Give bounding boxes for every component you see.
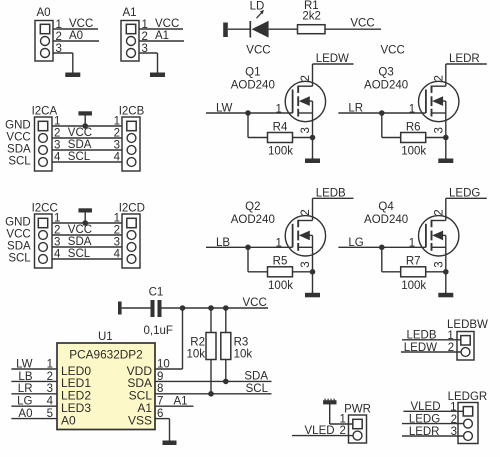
svg-text:1: 1 [409,238,415,250]
svg-text:VCC: VCC [246,45,270,57]
svg-text:VLED: VLED [305,425,335,437]
svg-text:LEDB: LEDB [406,330,436,342]
svg-text:2: 2 [114,128,120,140]
svg-text:3: 3 [114,237,120,249]
svg-text:SDA: SDA [7,240,31,252]
svg-text:SCL: SCL [246,383,269,395]
svg-text:LEDW: LEDW [404,342,437,354]
svg-text:3: 3 [54,237,60,249]
svg-text:LD: LD [250,0,265,12]
svg-text:LG: LG [17,396,32,408]
svg-text:VCC: VCC [69,18,93,30]
svg-text:R6: R6 [406,121,421,133]
svg-text:GND: GND [5,216,31,228]
svg-text:3: 3 [300,127,312,133]
svg-text:VCC: VCC [155,18,179,30]
svg-text:AOD240: AOD240 [231,214,275,226]
svg-text:U1: U1 [98,331,113,343]
svg-text:VLED: VLED [410,401,440,413]
svg-text:SDA: SDA [68,139,92,151]
svg-text:1: 1 [275,238,281,250]
svg-text:1: 1 [275,103,281,115]
svg-text:3: 3 [142,43,148,55]
svg-text:SDA: SDA [7,143,31,155]
svg-text:Q4: Q4 [378,201,394,213]
svg-text:VCC: VCC [243,297,267,309]
svg-text:2: 2 [56,31,62,43]
svg-text:1: 1 [142,19,148,31]
svg-text:SCL: SCL [8,155,31,167]
svg-text:LR: LR [348,103,363,115]
svg-text:2: 2 [300,209,312,215]
svg-text:SDA: SDA [244,370,268,382]
svg-text:LG: LG [348,237,363,249]
svg-text:I2CA: I2CA [32,105,58,117]
svg-text:R7: R7 [406,256,421,268]
svg-text:SCL: SCL [8,252,31,264]
svg-text:4: 4 [54,249,61,261]
svg-text:VCC: VCC [381,45,405,57]
svg-text:2: 2 [54,225,60,237]
svg-text:R4: R4 [273,121,288,133]
svg-text:4: 4 [47,396,54,408]
svg-text:1: 1 [47,358,53,370]
svg-text:R5: R5 [273,256,288,268]
svg-text:R2: R2 [190,336,205,348]
svg-text:LR: LR [18,383,33,395]
svg-text:VCC: VCC [6,228,30,240]
svg-text:2: 2 [448,342,454,354]
svg-text:LB: LB [216,237,230,249]
svg-text:3: 3 [434,127,446,133]
svg-text:2k2: 2k2 [302,11,321,23]
svg-text:LEDR: LEDR [449,53,480,65]
svg-text:A1: A1 [123,7,137,19]
svg-text:VSS: VSS [128,413,152,427]
svg-text:Q3: Q3 [378,67,393,79]
svg-text:10k: 10k [234,349,253,361]
svg-text:LEDR: LEDR [409,426,440,438]
svg-text:A0: A0 [37,7,51,19]
svg-text:PCA9632DP2: PCA9632DP2 [69,347,142,361]
svg-text:3: 3 [300,261,312,267]
svg-text:Q1: Q1 [245,67,260,79]
svg-text:2: 2 [434,75,446,81]
svg-text:3: 3 [47,383,53,395]
svg-text:A1: A1 [174,396,188,408]
svg-text:A0: A0 [69,30,83,42]
svg-text:2: 2 [434,209,446,215]
svg-text:100k: 100k [268,146,293,158]
svg-text:4: 4 [54,152,61,164]
svg-text:C1: C1 [149,287,164,299]
svg-text:VCC: VCC [68,224,92,236]
svg-text:I2CD: I2CD [119,202,145,214]
svg-text:2: 2 [54,128,60,140]
svg-text:LEDBW: LEDBW [447,319,488,331]
svg-text:3: 3 [56,43,62,55]
svg-text:2: 2 [451,414,457,426]
svg-text:LEDB: LEDB [316,188,346,200]
svg-text:4: 4 [114,249,121,261]
svg-text:VCC: VCC [68,127,92,139]
svg-text:AOD240: AOD240 [364,80,408,92]
svg-text:2: 2 [300,75,312,81]
svg-text:SCL: SCL [68,248,91,260]
svg-text:VCC: VCC [6,131,30,143]
svg-text:LW: LW [16,358,33,370]
svg-text:PWR: PWR [344,404,371,416]
svg-text:1: 1 [447,330,453,342]
svg-text:2: 2 [339,425,345,437]
svg-text:LW: LW [216,103,233,115]
svg-text:VCC: VCC [350,18,374,30]
svg-text:4: 4 [114,152,121,164]
svg-text:I2CC: I2CC [32,202,58,214]
svg-text:100k: 100k [401,280,426,292]
svg-text:5: 5 [47,408,53,420]
svg-text:3: 3 [114,140,120,152]
svg-text:100k: 100k [401,146,426,158]
svg-text:1: 1 [409,103,415,115]
svg-text:3: 3 [451,426,457,438]
svg-text:A0: A0 [61,413,76,427]
svg-text:LEDW: LEDW [316,53,349,65]
svg-text:LEDGR: LEDGR [448,391,488,403]
svg-text:A1: A1 [155,30,169,42]
svg-text:LEDG: LEDG [409,413,440,425]
svg-text:10k: 10k [186,349,205,361]
svg-text:R3: R3 [234,336,249,348]
svg-text:2: 2 [47,371,53,383]
svg-text:GND: GND [5,119,31,131]
svg-text:2: 2 [142,31,148,43]
svg-text:I2CB: I2CB [119,105,145,117]
svg-text:100k: 100k [268,280,293,292]
svg-text:SCL: SCL [68,151,91,163]
svg-text:1: 1 [56,19,62,31]
svg-text:LEDG: LEDG [449,188,480,200]
svg-text:A0: A0 [18,408,32,420]
svg-text:Q2: Q2 [245,201,260,213]
svg-text:3: 3 [54,140,60,152]
svg-text:AOD240: AOD240 [231,80,275,92]
svg-text:AOD240: AOD240 [364,214,408,226]
svg-text:SDA: SDA [68,236,92,248]
svg-text:0,1uF: 0,1uF [144,325,173,337]
svg-text:2: 2 [114,225,120,237]
svg-text:3: 3 [434,261,446,267]
svg-text:LB: LB [18,371,32,383]
